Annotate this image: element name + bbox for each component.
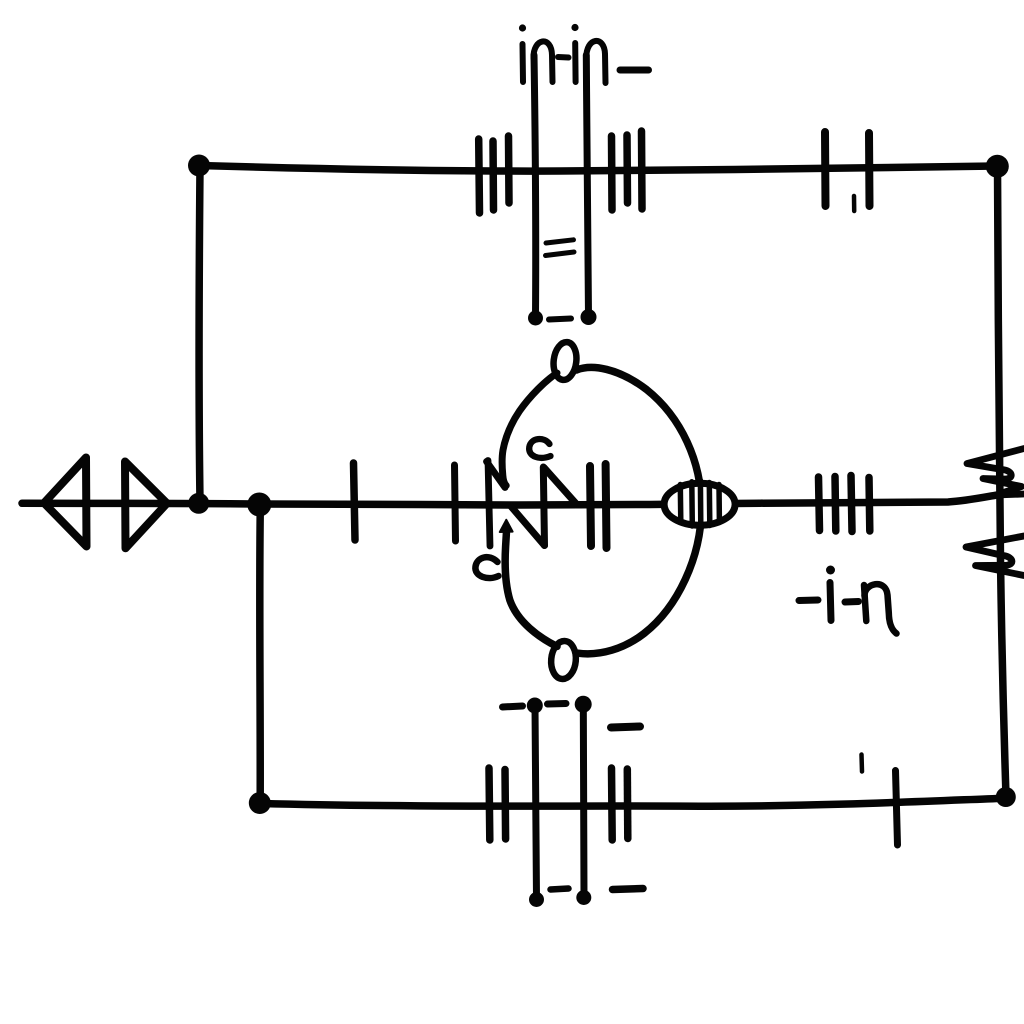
loop node o (bottom) — [550, 640, 578, 680]
scribble N small (with long left leg tick) — [487, 461, 506, 547]
label "c" lower — [475, 557, 498, 578]
arrowhead (up) — [500, 520, 513, 532]
dash between Y1 bottom terminals — [551, 889, 569, 890]
polarity mark "=" inside crystal — [546, 240, 575, 256]
node: bottom-left junction — [249, 792, 271, 814]
capacitor C3 plates (top wire right) — [825, 132, 870, 206]
capacitor C4 plates (middle bus) — [590, 464, 607, 548]
wire: lower-left vertical — [256, 506, 264, 801]
dash right of Y1 (lower) — [613, 889, 644, 890]
winding W1: hatched ellipse — [664, 481, 735, 528]
diode D1 (left-pointing triangle) — [44, 458, 87, 547]
dash right of Y1 (upper) — [611, 727, 640, 728]
scribble N large (resistor-like) — [512, 467, 576, 546]
small dash above T3 — [859, 755, 864, 772]
node: top-right junction — [986, 155, 1009, 178]
tick below C3 — [852, 196, 857, 211]
dash left of Y1 top terminals — [503, 706, 523, 707]
resistor R2 scribble (upper, on right vertical) — [967, 449, 1024, 496]
tick T2 on middle bus — [455, 465, 456, 541]
node: mid-left junction B — [247, 493, 271, 517]
node: bottom-right junction — [996, 787, 1016, 807]
capacitor C7 hatch (bottom bus, right) — [612, 768, 628, 840]
tick T3 on bottom bus — [896, 771, 898, 846]
crystal X1 electrode plates with terminal dots — [528, 55, 597, 326]
wire: bottom bus — [261, 798, 1004, 806]
wire: top bus — [199, 166, 997, 172]
wire: middle bus — [22, 495, 996, 505]
diode D2 (right-pointing triangle) — [125, 462, 167, 549]
rotor loop: lower-left arc with arrow shaft — [505, 533, 557, 647]
component Y1 electrode plates with terminal dots (bottom) — [527, 696, 592, 907]
loop node o (top) — [551, 341, 578, 381]
node: top-left junction — [188, 155, 210, 177]
rotor loop: upper-left arc — [502, 373, 557, 486]
capacitor C1 hatch (top wire, left of crystal) — [479, 136, 509, 213]
capacitor C6 hatch (bottom bus, left) — [489, 768, 506, 840]
rotor loop: right arc — [577, 367, 702, 653]
dash between Y1 top terminals — [548, 700, 567, 708]
wire: left vertical — [195, 167, 203, 501]
node: mid-left junction A — [188, 493, 209, 514]
resistor R3 scribble (lower, on right vertical) — [966, 536, 1024, 576]
tick T1 on middle bus — [354, 463, 356, 540]
label "in-in -" — [519, 24, 649, 83]
capacitor C2 hatch (top wire, right of crystal) — [612, 131, 643, 210]
capacitor C5 hatch (middle bus right, 4 strokes) — [819, 476, 870, 532]
label "-i-n" — [799, 566, 897, 634]
wire: right vertical — [998, 167, 1007, 796]
dash between crystal terminals — [549, 319, 571, 320]
label "c" upper — [529, 439, 550, 458]
